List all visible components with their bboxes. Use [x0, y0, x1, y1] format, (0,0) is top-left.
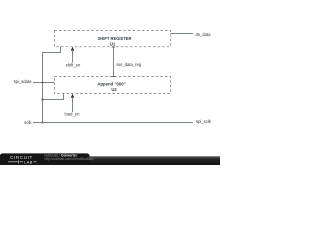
svg-text:load_en: load_en	[65, 112, 81, 117]
footer logo tab	[0, 153, 90, 165]
svg-text:Append "000": Append "000"	[97, 81, 125, 86]
footer bar	[0, 156, 220, 165]
svg-text:LAB: LAB	[24, 160, 32, 164]
block U2 Append "000"	[55, 77, 171, 94]
svg-text:spi_sclk: spi_sclk	[196, 119, 212, 124]
wire ds_data (U1 right edge to label)	[171, 33, 194, 35]
wire sclk branch to U2 (step)	[43, 94, 64, 100]
block U1 SHIFT REGISTER	[55, 31, 171, 47]
arrow shift_en into U1 bottom edge	[71, 47, 75, 63]
junction spi_sdata x sclk riser	[42, 82, 44, 84]
svg-text:spi_sdata: spi_sdata	[14, 79, 33, 84]
wire sclk (bottom horizontal)	[33, 122, 193, 124]
svg-text:ser_data_reg: ser_data_reg	[117, 62, 142, 67]
svg-text:http:/circuitlab.com/c2hbuf5ua: http:/circuitlab.com/c2hbuf5ua65u2	[45, 157, 95, 161]
arrow load_en into U2 bottom edge	[71, 94, 75, 112]
junction load step x sclk riser	[41, 98, 43, 100]
svg-text:SHIFT REGISTER: SHIFT REGISTER	[98, 36, 132, 41]
junction sclk riser x sclk line	[41, 121, 43, 123]
svg-text:U2: U2	[111, 87, 117, 92]
svg-text:shift_en: shift_en	[66, 63, 81, 68]
svg-text:ds_data: ds_data	[196, 32, 212, 37]
wire ser_data_reg (U1 bottom to U2 top)	[112, 47, 116, 77]
svg-text:U1: U1	[110, 41, 116, 46]
wire spi_sdata (label to U2 left edge)	[33, 82, 55, 84]
wire sclk branch to U1 (vertical riser with step)	[43, 47, 61, 123]
logo CircuitLab	[8, 155, 37, 164]
svg-text:sclk: sclk	[24, 120, 32, 125]
